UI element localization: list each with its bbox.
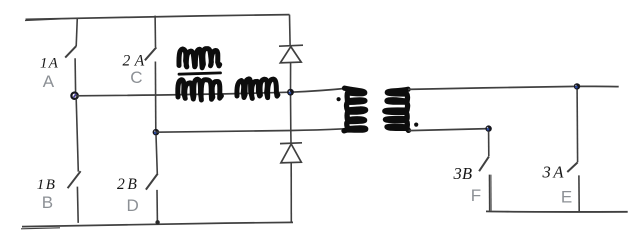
svg-text:E: E <box>561 187 572 206</box>
wire bottom rail <box>22 222 293 226</box>
switch 2B <box>146 135 158 222</box>
diode D2 <box>280 143 302 163</box>
svg-text:B: B <box>42 193 53 212</box>
junction dot secondary top <box>574 83 580 89</box>
diode D1 <box>279 45 303 63</box>
wire bottom right rail <box>486 210 628 213</box>
junction dot bridge mid <box>287 89 294 96</box>
inductor L1 main winding <box>178 79 222 100</box>
wire bottom rail left stub <box>21 228 60 229</box>
wire lower link line <box>156 129 344 132</box>
wire secondary top <box>408 86 619 89</box>
wire right bridge vertical upper <box>289 15 292 46</box>
transformer secondary dot <box>414 123 418 127</box>
wire secondary bottom <box>409 129 489 131</box>
svg-text:1B: 1B <box>37 177 56 193</box>
junction blob leg2 bottom <box>155 220 159 224</box>
wire top rail <box>26 15 290 20</box>
node junction dot leg2 <box>153 129 160 136</box>
switch 3B <box>479 132 491 211</box>
inductor core bar <box>179 73 221 74</box>
switch 1A <box>65 18 77 93</box>
svg-text:3A: 3A <box>542 162 567 181</box>
wire top rail left stub <box>25 19 70 21</box>
node A junction dot <box>71 93 77 99</box>
wire mid node line <box>76 88 346 95</box>
switch 3A <box>567 89 579 211</box>
transformer T1 primary winding <box>344 88 366 131</box>
svg-text:3B: 3B <box>453 164 473 183</box>
transformer T1 secondary winding <box>385 89 409 130</box>
transformer primary dot <box>337 97 341 101</box>
svg-text:2B: 2B <box>117 176 139 193</box>
svg-text:1A: 1A <box>40 56 59 72</box>
svg-text:2A: 2A <box>123 53 149 70</box>
inductor L2 winding <box>237 79 278 99</box>
svg-text:D: D <box>126 196 138 215</box>
switch 2A <box>145 16 156 131</box>
wire right bridge vertical middle <box>290 63 293 143</box>
switch 1B <box>68 99 81 223</box>
svg-text:C: C <box>130 68 142 87</box>
junction dot secondary bottom <box>485 125 491 131</box>
wire right bridge vertical lower <box>290 163 292 223</box>
svg-text:F: F <box>471 186 481 205</box>
svg-text:A: A <box>43 72 55 91</box>
inductor L1 top winding <box>179 49 220 68</box>
